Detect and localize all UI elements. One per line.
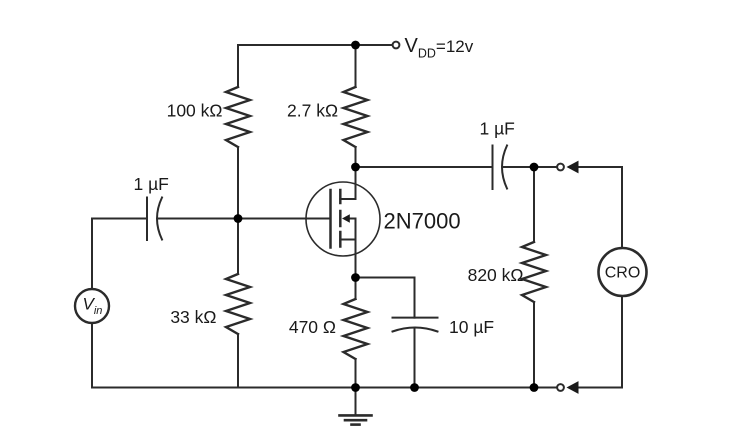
- svg-text:1 µF: 1 µF: [480, 119, 515, 139]
- node dot bypass cap bottom: [410, 383, 419, 392]
- arrowhead probe bottom: [567, 381, 579, 394]
- svg-text:33 kΩ: 33 kΩ: [170, 307, 216, 327]
- capacitor C1 1uF input straight plate: [146, 198, 148, 241]
- resistor R4 470 Ohm: [344, 299, 368, 359]
- svg-text:1 µF: 1 µF: [134, 174, 169, 194]
- svg-text:2N7000: 2N7000: [384, 209, 461, 234]
- transistor Q1 channel dash middle: [339, 211, 342, 226]
- wire CRO probe bottom: [578, 296, 622, 388]
- svg-text:Vin: Vin: [83, 295, 103, 318]
- wire input left vertical upper: [91, 219, 93, 290]
- wire top rail: [238, 44, 392, 46]
- terminal VDD open circle: [393, 42, 400, 49]
- capacitor C2 1uF output straight plate: [492, 146, 494, 190]
- wire CRO probe top: [578, 167, 622, 248]
- wire source node to bypass cap: [356, 278, 415, 318]
- transistor Q1 gate bar: [329, 190, 332, 248]
- terminal output bottom open circle: [557, 384, 564, 391]
- wire 100k bottom lead to gate node: [237, 147, 239, 219]
- ground bar 1: [340, 414, 372, 417]
- resistor R3 2.7 kOhm: [344, 87, 368, 147]
- capacitor C3 10uF curved bottom plate: [393, 328, 438, 332]
- svg-text:VDD=12v: VDD=12v: [405, 35, 474, 61]
- wire gate horizontal: [158, 218, 331, 220]
- arrowhead probe top: [567, 161, 579, 174]
- transistor Q1 source stub: [340, 239, 355, 241]
- wire ground rail: [92, 387, 557, 389]
- wire drain node to output cap: [356, 166, 493, 168]
- meter CRO circle: [599, 248, 647, 296]
- node dot load top: [530, 163, 539, 172]
- wire 820k bottom lead to ground rail: [533, 302, 535, 388]
- resistor R1 100 kOhm: [226, 87, 250, 147]
- transistor Q1 channel dash top: [339, 190, 342, 203]
- wire 470 bottom lead to ground rail: [355, 359, 357, 388]
- wire output cap to load node: [503, 166, 558, 168]
- svg-text:10 µF: 10 µF: [449, 317, 494, 337]
- wire source vertical to source node: [355, 240, 357, 278]
- wire load node to 820k: [533, 167, 535, 242]
- terminal output top open circle: [557, 164, 564, 171]
- node dot ground rail center: [351, 383, 360, 392]
- capacitor C2 1uF output curved plate: [502, 146, 507, 189]
- transistor Q1 channel dash bottom: [339, 232, 342, 247]
- resistor R5 820 kOhm: [522, 242, 546, 302]
- wire drain vertical upper (2.7k top lead): [355, 45, 357, 87]
- resistor R2 33 kOhm: [226, 274, 250, 334]
- transistor Q1 drain stub: [340, 167, 355, 199]
- node dot load bottom: [530, 383, 539, 392]
- svg-text:820 kΩ: 820 kΩ: [468, 265, 524, 285]
- transistor Q1 body arrowhead: [342, 214, 350, 222]
- wire 2.7k bottom lead to drain node: [355, 147, 357, 199]
- ground bar 2: [345, 419, 366, 422]
- svg-text:100 kΩ: 100 kΩ: [167, 101, 223, 121]
- svg-text:470 Ω: 470 Ω: [289, 317, 336, 337]
- node dot VDD rail: [351, 41, 360, 50]
- wire input horizontal to coupling cap: [92, 218, 147, 220]
- capacitor C3 10uF top plate: [393, 317, 438, 319]
- ground bar 3: [352, 423, 360, 426]
- source V_in circle: [75, 289, 109, 323]
- ground stub: [355, 388, 357, 416]
- transistor Q1 2N7000 circle: [306, 182, 380, 256]
- wire left bias vertical upper (100k top lead): [237, 45, 239, 87]
- svg-text:2.7 kΩ: 2.7 kΩ: [287, 101, 338, 121]
- wire input left vertical lower: [91, 323, 93, 388]
- wire 33k top lead: [237, 219, 239, 275]
- node dot source: [351, 273, 360, 282]
- wire 33k bottom lead to ground rail: [237, 334, 239, 388]
- svg-text:CRO: CRO: [605, 265, 641, 282]
- node dot gate divider: [234, 214, 243, 223]
- capacitor C1 1uF input curved plate: [157, 198, 162, 240]
- wire bypass cap bottom lead: [414, 330, 416, 388]
- transistor Q1 body lead with arrow line: [348, 219, 356, 240]
- wire source node to 470 top: [355, 278, 357, 300]
- node dot drain: [351, 163, 360, 172]
